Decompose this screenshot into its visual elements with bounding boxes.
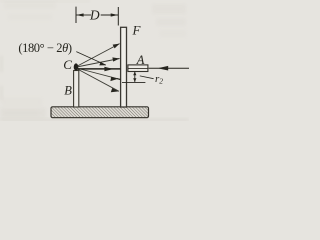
svg-text:F: F: [132, 22, 142, 37]
dimension D: left tick: [75, 7, 77, 23]
faint smudge left edge lower: [0, 86, 3, 100]
r2 dimension: bottom tick: [122, 81, 145, 83]
r2 dimension: vertical double arrow: [133, 72, 136, 83]
base slab (hatched): [51, 107, 149, 118]
svg-text:D: D: [89, 8, 100, 23]
svg-text:C: C: [63, 57, 72, 72]
dimension D: right arrow: [101, 13, 118, 16]
paper background: [0, 0, 189, 121]
axial thick ray / beam to film hole: [77, 67, 121, 71]
rod B: [74, 71, 79, 108]
svg-text:A: A: [136, 53, 145, 67]
specimen blob at C: [74, 63, 79, 70]
faint page-edge shading: [0, 119, 189, 121]
collimator tube A: [128, 65, 148, 72]
incident beam line A: [149, 66, 189, 71]
dimension D: left arrow: [76, 13, 91, 16]
ray R2: [77, 57, 120, 67]
film F: [121, 27, 127, 107]
ray R1 to film top: [77, 44, 120, 67]
faint smudge bottom left: [2, 98, 42, 106]
r2 leader line: [140, 76, 154, 79]
faint smudge top right: [152, 4, 186, 14]
ray R5 to film bottom: [77, 69, 120, 93]
dimension D: right tick: [117, 7, 119, 26]
leader arrow from angle label: [76, 52, 106, 66]
faint smudge top left: [4, 2, 56, 9]
ray R4: [77, 68, 121, 81]
faint smudge left edge: [0, 56, 3, 72]
svg-text:B: B: [64, 84, 72, 98]
svg-text:(180° − 2θ): (180° − 2θ): [18, 41, 71, 55]
